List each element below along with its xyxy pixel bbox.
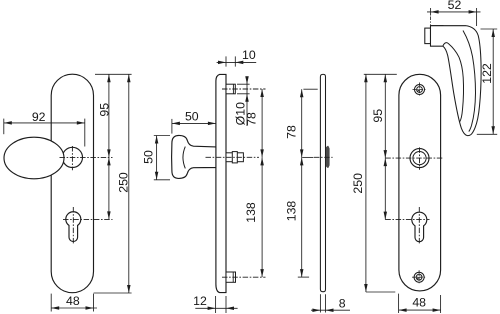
- top fixing pin chamfer line view2: [232, 84, 234, 94]
- dimension 50v arrow bottom: [155, 172, 159, 180]
- dimension spindle-to-cylinder arrow top view4: [384, 158, 388, 166]
- dimension 52 arrow left: [431, 10, 439, 14]
- knob centerline vertical view1: [71, 146, 73, 170]
- dimension 95 arrow top view4: [384, 74, 388, 82]
- dimension 8 line view3: [311, 309, 350, 311]
- dimension 12 extension right view2: [225, 296, 227, 313]
- cylinder keyhole view4: [412, 212, 427, 242]
- spindle rosette inner circle view4: [413, 152, 426, 165]
- svg-text:95: 95: [97, 103, 111, 117]
- dimension 122 extension top view4: [481, 28, 498, 30]
- dimension 78 line view3: [301, 89, 303, 157]
- view2 spindle centerline: [206, 156, 260, 158]
- view3 plate profile outline: [320, 74, 325, 291]
- handle grip outline view4: [431, 26, 482, 136]
- oval knob face on view1: [4, 137, 64, 179]
- dimension 122 extension bottom view4: [477, 133, 497, 135]
- dimension 8 extension left view3: [319, 294, 321, 312]
- dimension 8 arrow left outside: [312, 308, 320, 312]
- svg-text:50: 50: [142, 150, 156, 164]
- view1 top extension line: [95, 73, 132, 75]
- view1 backplate outline (48x250 plate): [51, 74, 93, 292]
- svg-text:78: 78: [244, 112, 258, 126]
- dimension 250 line view1: [128, 74, 130, 293]
- bottom screw view4 inner circle: [416, 274, 422, 280]
- dimension 138 arrow top view2: [260, 157, 264, 165]
- dimension 78 arrow bottom view2: [260, 149, 264, 157]
- dimension spindle-to-cylinder line view4: [384, 158, 386, 220]
- dimension 10 extension left view2: [225, 56, 227, 66]
- knob spindle collar view2: [232, 152, 237, 163]
- svg-text:12: 12: [193, 294, 207, 308]
- dimension 250 line view4: [365, 74, 367, 292]
- dimension 78 line view2: [261, 89, 263, 157]
- bottom screw view4 vertical centerline: [418, 270, 420, 284]
- dimension 95 arrow top view1: [107, 74, 111, 82]
- dimension 50h arrow right: [208, 122, 216, 126]
- dimension 52 extension left view4: [430, 8, 432, 16]
- knob spindle stub view2: [226, 153, 243, 162]
- keyhole centerline horizontal view1: [63, 218, 113, 220]
- bottom fixing pin view2: [226, 272, 236, 282]
- dimension 48 line view4: [399, 309, 441, 311]
- dimension 48 arrow left view1: [51, 306, 59, 310]
- dimension 95 line view1: [108, 74, 110, 157]
- handle ferrule cap view4: [425, 28, 431, 43]
- svg-text:250: 250: [351, 173, 365, 194]
- keyhole centerline vertical view4: [418, 207, 420, 245]
- dimension 48 extension right view4: [440, 295, 442, 313]
- handle front-left contour line view4: [443, 43, 464, 122]
- view4 top extension line: [364, 73, 397, 75]
- dimension 12 extension left view2: [215, 296, 217, 313]
- dimension dia10 line view2: [246, 76, 248, 126]
- dimension 138 extension bottom view3: [298, 276, 309, 278]
- keyhole centerline vertical view1: [72, 207, 74, 245]
- bottom screw view4 slot mark: [417, 277, 419, 279]
- bottom pin centerline view2: [222, 276, 266, 278]
- top screw view4 slot mark: [417, 90, 419, 92]
- dimension 12 arrow right outside: [226, 307, 234, 311]
- dimension 50h line view2: [172, 122, 216, 124]
- knob side inner contour line: [183, 147, 185, 169]
- dimension 52 dashed axis view4: [430, 17, 432, 26]
- top pin centerline view2: [222, 88, 266, 90]
- svg-text:10: 10: [242, 48, 256, 62]
- dimension 8 extension right view3: [325, 294, 327, 312]
- dimension 78 arrow top view2: [260, 89, 264, 97]
- dimension 250 arrow bottom view4: [364, 284, 368, 292]
- dimension dia10 extension top view2: [237, 83, 250, 85]
- view2 plate profile outline: [216, 74, 226, 292]
- dimension 138 line view3: [301, 157, 303, 277]
- dimension spindle-to-cylinder arrow top view1: [107, 157, 111, 165]
- top screw view4 outer circle: [415, 85, 425, 95]
- dimension spindle-to-cylinder arrow bottom view1: [107, 211, 111, 219]
- dimension 92 extension line right: [84, 119, 86, 147]
- knob side view on view2: [172, 135, 216, 178]
- dimension 92 arrow left: [4, 121, 12, 125]
- cylinder keyhole view1: [66, 212, 81, 242]
- dimension 8 arrow right outside: [326, 308, 334, 312]
- svg-text:138: 138: [244, 202, 258, 223]
- svg-text:48: 48: [412, 295, 426, 309]
- dimension 50h extension left view2: [171, 119, 173, 134]
- svg-text:78: 78: [284, 125, 298, 139]
- dimension 48 extension left view1: [50, 294, 52, 312]
- dimension 50v line view2: [156, 136, 158, 180]
- dimension 48 extension left view4: [398, 294, 400, 313]
- dimension dia10 arrow top outside: [245, 76, 249, 84]
- dimension 92 extension line left: [3, 119, 5, 135]
- dimension 48 arrow right view4: [433, 308, 441, 312]
- view4 bottom extension line: [366, 291, 395, 293]
- dimension 138 line view2: [261, 157, 263, 277]
- top screw view4 vertical centerline: [419, 83, 421, 97]
- dimension 95 arrow bottom view4: [384, 150, 388, 158]
- dimension 138 arrow bottom view2: [260, 269, 264, 277]
- dimension 78 extension top view3: [303, 88, 317, 90]
- dimension 10 line view2: [217, 61, 257, 63]
- top screw view4 inner circle: [417, 87, 423, 93]
- dimension 50v arrow top: [155, 136, 159, 144]
- dimension 50v extension top view2: [154, 135, 170, 137]
- dimension 122 arrow bottom: [491, 126, 495, 134]
- svg-text:92: 92: [32, 110, 46, 124]
- dimension 50v extension bottom view2: [154, 179, 170, 181]
- spindle centerline horizontal view4: [385, 157, 443, 159]
- dimension 12 arrow left outside: [208, 307, 216, 311]
- svg-text:250: 250: [116, 172, 130, 193]
- dimension 138 arrow top view3: [300, 157, 304, 165]
- dimension dia10 arrow bottom outside: [245, 94, 249, 102]
- dimension 10 extension right view2: [234, 56, 236, 66]
- svg-text:122: 122: [480, 63, 494, 84]
- view1 bottom extension line: [94, 292, 132, 294]
- dimension dia10 extension bottom view2: [237, 93, 250, 95]
- spindle rosette outer circle view4: [410, 149, 429, 168]
- dimension 122 arrow top: [491, 29, 495, 37]
- bottom fixing pin chamfer line view2: [232, 272, 234, 282]
- dimension 78 mid extension view3: [302, 156, 313, 158]
- svg-text:50: 50: [185, 109, 199, 123]
- svg-text:8: 8: [339, 296, 346, 310]
- top screw view4 horizontal centerline: [413, 89, 427, 91]
- dimension 92 line: [4, 122, 85, 124]
- spindle hub boss view3: [326, 146, 329, 167]
- dimension 78 arrow bottom view3: [300, 149, 304, 157]
- dimension spindle-to-cylinder arrow bottom view4: [384, 212, 388, 220]
- svg-text:52: 52: [448, 0, 462, 12]
- dimension 78 arrow top view3: [300, 89, 304, 97]
- dimension 10 arrow left outside: [218, 61, 226, 65]
- svg-text:48: 48: [66, 294, 80, 308]
- dimension 95 line view4: [384, 74, 386, 158]
- handle neck block view4: [431, 26, 444, 46]
- dimension 52 arrow right: [469, 10, 477, 14]
- dimension 50h arrow left: [172, 122, 180, 126]
- dimension 48 line view1: [51, 307, 97, 309]
- bottom screw view4 horizontal centerline: [412, 276, 426, 278]
- top fixing pin view2: [226, 84, 235, 94]
- dimension 250 arrow top view4: [364, 74, 368, 82]
- dimension 10 arrow right outside: [235, 61, 243, 65]
- dimension 52 extension right view4: [476, 8, 478, 26]
- dimension 48 arrow right view1: [86, 306, 94, 310]
- dimension 122 line view4: [492, 29, 494, 134]
- dimension spindle-to-cylinder line view1: [108, 157, 110, 219]
- knob centerline horizontal view1: [60, 156, 113, 158]
- dimension 48 extension right view1: [93, 294, 95, 312]
- dimension 250 arrow bottom view1: [127, 285, 131, 293]
- svg-text:138: 138: [284, 201, 298, 222]
- dimension 250 arrow top view1: [127, 74, 131, 82]
- knob neck circle on view1: [62, 147, 82, 167]
- spindle centerline vertical view4: [419, 147, 421, 169]
- dimension 92 arrow right: [77, 121, 85, 125]
- dimension 48 arrow left view4: [399, 308, 407, 312]
- view3 spindle centerline: [314, 156, 333, 158]
- svg-text:95: 95: [371, 109, 385, 123]
- handle front-right contour line view4: [463, 31, 476, 132]
- dimension 95 arrow bottom view1: [107, 149, 111, 157]
- keyhole centerline horizontal view4: [385, 219, 429, 221]
- dimension 12 line view2: [195, 307, 237, 309]
- dimension 52 line view4: [427, 11, 481, 13]
- bottom screw view4 outer circle: [414, 272, 424, 282]
- view4 backplate outline: [399, 74, 441, 291]
- dimension 138 arrow bottom view3: [300, 269, 304, 277]
